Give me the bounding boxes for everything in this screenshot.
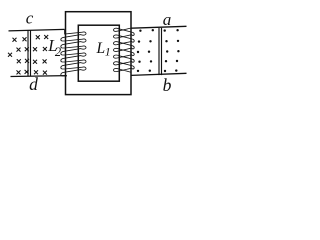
inductor L2 coil (left winding) bbox=[61, 29, 86, 76]
wire: left bottom rail bbox=[11, 75, 67, 78]
svg-text:c: c bbox=[26, 9, 34, 28]
rod ab (slider, double line) bbox=[159, 28, 162, 75]
rod cd (slider, double line) bbox=[28, 30, 31, 76]
svg-text:1: 1 bbox=[105, 45, 111, 59]
transformer core inner rectangle (window) bbox=[78, 25, 119, 81]
svg-text:d: d bbox=[29, 74, 38, 94]
svg-text:a: a bbox=[163, 10, 172, 29]
wire: right bottom rail bbox=[131, 73, 186, 75]
transformer core outer rectangle bbox=[66, 12, 132, 95]
svg-text:2: 2 bbox=[55, 45, 61, 59]
svg-text:b: b bbox=[163, 75, 172, 95]
inductor L1 coil (right winding) bbox=[113, 28, 134, 72]
svg-text:L: L bbox=[96, 40, 106, 57]
field-into-page x symbols (left region) bbox=[13, 38, 17, 42]
field-out-of-page dots (right region) bbox=[139, 30, 141, 32]
wire: right top rail bbox=[131, 26, 186, 28]
wire: left top rail bbox=[9, 29, 65, 31]
